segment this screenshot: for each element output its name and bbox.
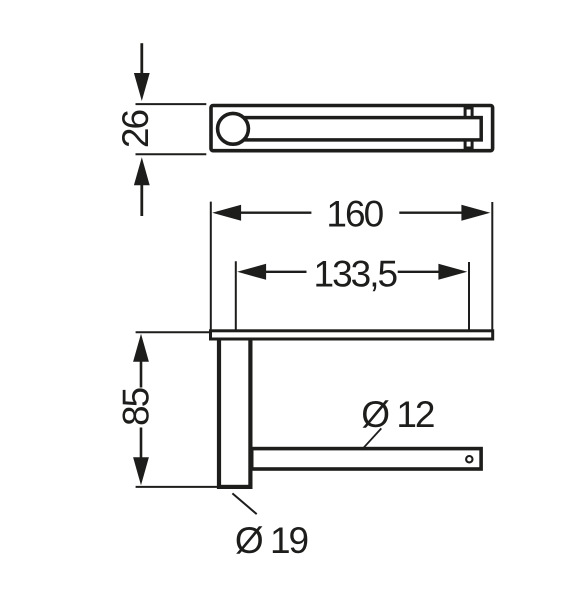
wall post (front view) <box>219 338 250 487</box>
svg-text:85: 85 <box>115 387 156 426</box>
dim 160 label <box>326 194 383 235</box>
diameter 12 leader line <box>362 428 382 449</box>
svg-text:Ø 12: Ø 12 <box>361 394 434 435</box>
dim 26 label <box>115 111 156 149</box>
diameter 19 leader line <box>232 493 256 514</box>
svg-text:Ø 19: Ø 19 <box>235 520 308 561</box>
dim 85 label <box>115 387 156 426</box>
dim 85 upper arrow <box>133 334 149 388</box>
wall plate (front view) <box>211 331 493 339</box>
dim 85 lower arrow <box>133 428 149 486</box>
roller bar (top view) <box>238 118 482 140</box>
dim 160 line right segment with arrow <box>399 205 490 221</box>
dim 26 lower arrow <box>134 157 150 216</box>
diameter 19 label <box>235 520 308 561</box>
dim 160 line left segment with arrow <box>212 205 311 221</box>
svg-text:133,5: 133,5 <box>314 253 398 294</box>
svg-text:160: 160 <box>326 194 383 235</box>
diameter 12 label <box>361 394 434 435</box>
dim 133,5 extension line left <box>235 261 237 331</box>
dim 133,5 line right segment with arrow <box>398 264 468 280</box>
dim 133,5 label <box>314 253 398 294</box>
svg-text:26: 26 <box>115 111 156 149</box>
dim 160 extension line right <box>491 202 493 330</box>
screw hole in holder bar <box>466 456 472 462</box>
dim 26 extension line top <box>136 103 207 105</box>
holder bar (front view) <box>252 449 481 469</box>
dim 85 extension line bottom <box>136 486 219 488</box>
dim 26 upper arrow <box>134 43 150 101</box>
top view housing outline <box>211 106 493 151</box>
dim 160 extension line left <box>210 202 212 331</box>
dim 133,5 extension line right <box>468 262 470 331</box>
roller end circle (top view) <box>218 113 249 144</box>
mounting strip (top view, right end) <box>465 108 472 148</box>
dim 26 extension line bottom <box>136 153 207 155</box>
dim 133,5 line left segment with arrow <box>237 264 306 280</box>
dim 85 extension line top <box>136 331 209 333</box>
